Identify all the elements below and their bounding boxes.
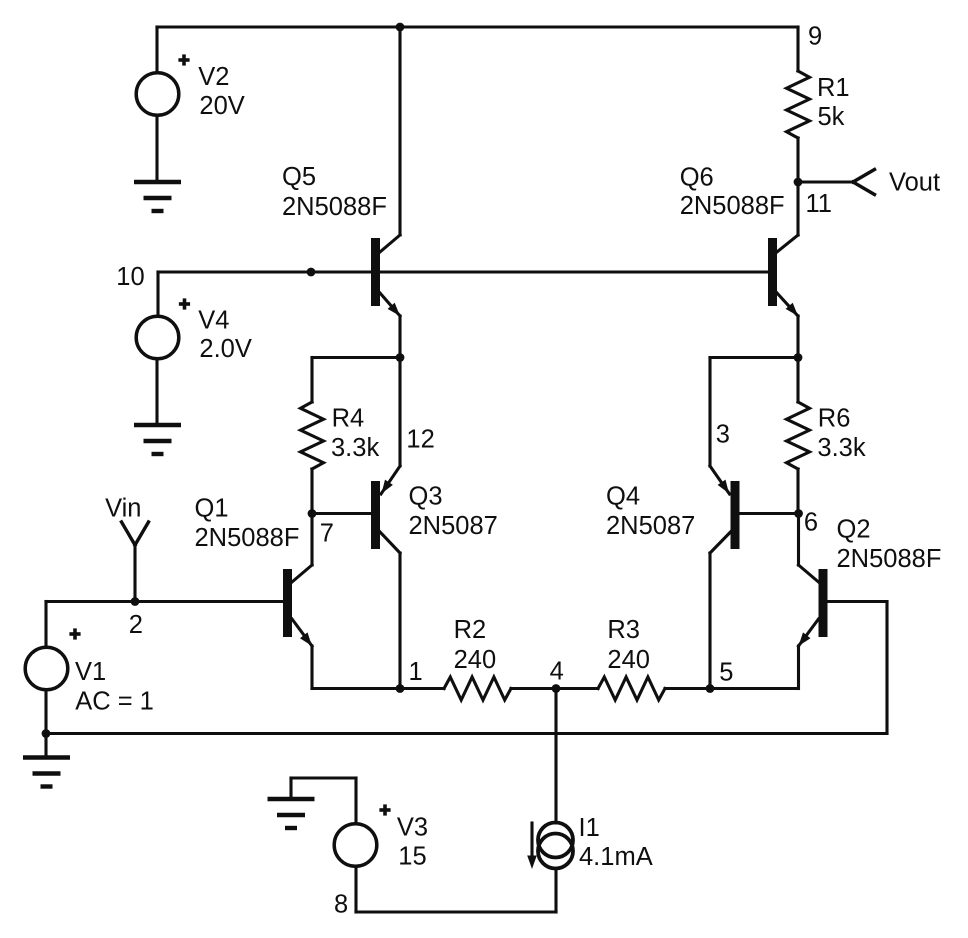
- svg-text:1: 1: [409, 658, 423, 686]
- wire Q2 base: [828, 600, 887, 603]
- wire V3 to I1 bottom: [356, 910, 556, 913]
- svg-text:V1: V1: [75, 658, 106, 686]
- wire Q6 emitter to node 3: [796, 316, 799, 358]
- wire Q6 collector to node 11: [796, 182, 799, 235]
- wire base rail node 10: [158, 270, 768, 273]
- svg-text:5: 5: [719, 659, 733, 687]
- Q2 emitter arrow: [799, 632, 811, 646]
- Q5 collector diagonal: [380, 235, 400, 252]
- resistor R6: [787, 402, 810, 469]
- V1 plus sign: [69, 628, 80, 639]
- Q1 emitter arrow: [300, 632, 312, 646]
- wire Q5 collector to top rail: [398, 27, 401, 235]
- svg-text:I1: I1: [579, 814, 600, 842]
- svg-text:2N5088F: 2N5088F: [282, 193, 387, 221]
- junction top rail / Q5 collector: [396, 23, 405, 32]
- svg-text:3.3k: 3.3k: [817, 434, 865, 462]
- wire V3 bottom: [354, 867, 357, 913]
- wire node12 to R4: [310, 358, 313, 403]
- wire V1 bottom: [44, 690, 47, 734]
- I1 arrow head: [527, 856, 537, 870]
- voltage source V4: [136, 316, 179, 359]
- transistor Q5 base bar: [371, 238, 380, 306]
- Q2 emitter diagonal: [799, 619, 819, 646]
- Q4 emitter diagonal: [710, 466, 730, 494]
- wire node3 to Q4 emitter: [708, 358, 711, 467]
- Q6 emitter diagonal: [777, 293, 798, 316]
- svg-text:2.0V: 2.0V: [199, 335, 251, 363]
- wire node6 to Q2 collector: [797, 514, 800, 566]
- wire Q1 emitter to node 1: [312, 687, 400, 690]
- wire Q2 base to bottom rail: [885, 602, 888, 734]
- svg-text:2N5088F: 2N5088F: [837, 545, 942, 573]
- V3 plus sign: [379, 804, 390, 815]
- svg-text:15: 15: [398, 843, 426, 871]
- wire V4 to ground: [155, 359, 158, 425]
- Q5 emitter diagonal: [380, 293, 400, 316]
- junction node 11 Vout tap: [794, 178, 803, 187]
- svg-text:Q4: Q4: [606, 483, 640, 511]
- svg-text:Q1: Q1: [195, 495, 229, 523]
- svg-text:2N5087: 2N5087: [409, 512, 498, 540]
- wire R4 to node 7: [310, 469, 313, 514]
- Q5 emitter arrow: [388, 303, 400, 316]
- resistor R1: [787, 71, 810, 138]
- wire Q4 base: [740, 512, 799, 515]
- svg-text:2N5087: 2N5087: [606, 512, 695, 540]
- ground V1: [23, 758, 70, 787]
- voltage source V2: [136, 73, 179, 116]
- junction node 7: [308, 509, 317, 518]
- wire Q1 emitter down: [310, 646, 313, 689]
- wire V1 to Q1 base: [46, 600, 283, 603]
- junction node 4: [552, 684, 561, 693]
- svg-text:R1: R1: [817, 74, 850, 102]
- current source I1: [538, 823, 573, 869]
- ground V3: [268, 799, 315, 828]
- svg-text:5k: 5k: [818, 103, 845, 131]
- junction node 6: [794, 509, 803, 518]
- svg-text:6: 6: [804, 509, 818, 537]
- svg-text:V3: V3: [397, 814, 428, 842]
- wire Q3 base: [312, 512, 371, 515]
- wire Q2 emitter down: [797, 646, 800, 689]
- Vin pin symbol: [122, 522, 149, 545]
- svg-text:V2: V2: [198, 63, 229, 91]
- Q4 emitter arrow: [718, 480, 729, 494]
- wire node4 to I1: [554, 689, 557, 824]
- junction V1 ground: [42, 729, 51, 738]
- svg-text:V4: V4: [198, 307, 229, 335]
- I1 arrow line: [530, 823, 533, 858]
- svg-text:2N5088F: 2N5088F: [680, 192, 785, 220]
- wire Q4 collector to node 5: [708, 553, 711, 689]
- wire R1 to node 11: [796, 138, 799, 182]
- Q6 collector diagonal: [777, 235, 798, 252]
- svg-text:240: 240: [454, 646, 497, 674]
- wire node12 to Q3 emitter: [398, 358, 401, 467]
- transistor Q1 base bar: [283, 569, 292, 637]
- wire Vout: [798, 180, 853, 183]
- wire node4 to R3: [556, 687, 598, 690]
- svg-text:7: 7: [320, 520, 334, 548]
- wire top rail node 9: [157, 25, 798, 28]
- transistor Q6 base bar: [768, 238, 777, 306]
- resistor R4: [301, 402, 324, 469]
- svg-text:Vin: Vin: [105, 495, 141, 523]
- wire V3 ground stem: [289, 778, 292, 799]
- svg-text:9: 9: [808, 23, 822, 51]
- Q3 emitter arrow: [382, 480, 393, 494]
- wire R6 to node 6: [796, 469, 799, 514]
- wire V4 top: [156, 272, 159, 316]
- junction node 5: [706, 684, 715, 693]
- wire node 12 horizontal: [312, 356, 400, 359]
- svg-text:Q6: Q6: [680, 164, 714, 192]
- wire node3 to R6: [796, 358, 799, 403]
- transistor Q3 base bar: [371, 481, 380, 549]
- V4 plus sign: [179, 298, 190, 309]
- svg-text:11: 11: [806, 190, 832, 218]
- svg-text:2N5088F: 2N5088F: [195, 524, 300, 552]
- resistor R3: [598, 677, 665, 700]
- Q1 emitter diagonal: [292, 619, 312, 646]
- Q4 collector diagonal: [710, 532, 731, 553]
- svg-text:R6: R6: [818, 405, 851, 433]
- wire node5 to Q2 emitter: [710, 687, 798, 690]
- Q3 collector diagonal: [380, 532, 400, 553]
- Q3 emitter diagonal: [381, 466, 400, 494]
- wire V1 ground stem: [44, 734, 47, 758]
- wire V2 to ground: [155, 116, 158, 183]
- wire node 3 horizontal: [710, 356, 798, 359]
- wire node7 to Q1 collector: [310, 514, 313, 566]
- svg-text:12: 12: [406, 425, 434, 453]
- svg-text:R4: R4: [332, 405, 365, 433]
- Vout pin symbol: [853, 170, 875, 195]
- V2 plus sign: [178, 54, 189, 65]
- svg-text:20V: 20V: [199, 92, 244, 120]
- junction node 1: [396, 684, 405, 693]
- svg-text:240: 240: [607, 646, 650, 674]
- svg-text:4.1mA: 4.1mA: [579, 843, 653, 871]
- transistor Q4 base bar: [731, 481, 740, 549]
- wire V1 top: [44, 602, 47, 648]
- junction base rail: [307, 268, 316, 277]
- ground V2: [134, 182, 181, 211]
- wire Q5 emitter to node 12: [398, 316, 401, 357]
- svg-text:8: 8: [334, 891, 348, 919]
- svg-text:2: 2: [129, 611, 143, 639]
- Q1 collector diagonal: [292, 565, 312, 582]
- svg-text:10: 10: [116, 263, 144, 291]
- svg-text:Q5: Q5: [282, 163, 316, 191]
- svg-text:Vout: Vout: [889, 169, 940, 197]
- svg-text:R3: R3: [607, 616, 640, 644]
- voltage source V3: [334, 824, 377, 867]
- wire node1 to R2: [400, 687, 444, 690]
- wire R2 to node 4: [511, 687, 556, 690]
- wire V3 top: [354, 778, 357, 824]
- wire node9 to R1: [796, 27, 799, 71]
- svg-text:4: 4: [550, 658, 564, 686]
- voltage source V1: [25, 647, 68, 690]
- transistor Q2 base bar: [819, 569, 828, 637]
- wire Vin stem: [133, 545, 136, 602]
- wire I1 bottom: [554, 869, 557, 913]
- svg-text:3: 3: [716, 421, 730, 449]
- wire V3 top horizontal: [291, 776, 356, 779]
- wire R3 to node 5: [665, 687, 710, 690]
- wire V2 top: [155, 27, 158, 73]
- junction node 3: [794, 353, 803, 362]
- junction node 2: [131, 597, 140, 606]
- svg-text:Q3: Q3: [409, 483, 443, 511]
- svg-text:AC = 1: AC = 1: [75, 688, 154, 716]
- ground V4: [134, 425, 181, 454]
- svg-text:3.3k: 3.3k: [331, 434, 379, 462]
- svg-text:R2: R2: [454, 616, 487, 644]
- Q2 collector diagonal: [799, 565, 819, 582]
- svg-text:Q2: Q2: [837, 516, 871, 544]
- wire Q3 collector to node 1: [398, 553, 401, 689]
- junction node 12: [396, 353, 405, 362]
- resistor R2: [444, 677, 511, 700]
- Q6 emitter arrow: [786, 303, 798, 316]
- wire bottom rail: [46, 732, 887, 735]
